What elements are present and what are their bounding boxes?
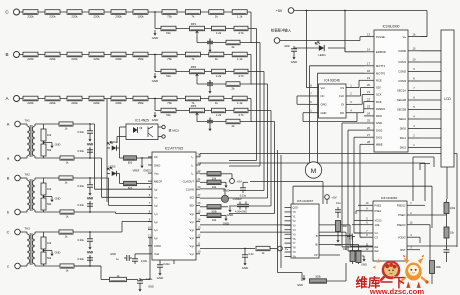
wire TA3 top to rail xyxy=(73,231,122,233)
svg-text:RP2: RP2 xyxy=(191,65,197,69)
watermark text weiku xyxy=(356,275,406,290)
potentiometer RP3 xyxy=(190,104,205,118)
svg-text:V‌cc: V‌cc xyxy=(154,171,159,175)
wire +5V rail xyxy=(294,10,427,88)
capacitor C-LED xyxy=(284,44,297,54)
svg-text:IE2: IE2 xyxy=(375,249,379,253)
svg-text:IC5 CD4067: IC5 CD4067 xyxy=(297,199,314,203)
node c terminal xyxy=(7,263,27,269)
svg-text:220k: 220k xyxy=(71,15,78,19)
svg-text:V₃p: V₃p xyxy=(189,244,194,248)
svg-text:0.33u: 0.33u xyxy=(78,130,85,134)
ground C-cf xyxy=(242,260,248,270)
resistor RA10 1.1k xyxy=(232,96,247,105)
svg-text:DIG0: DIG0 xyxy=(400,127,407,131)
svg-text:TA1: TA1 xyxy=(25,119,31,123)
wire chain end bracket C xyxy=(251,12,252,43)
ground bottom xyxy=(138,286,154,292)
wire tap junction phase B xyxy=(154,54,156,72)
svg-text:DIO1: DIO1 xyxy=(376,135,383,139)
ground TA3 mid xyxy=(43,250,61,257)
svg-text:I₄p: I₄p xyxy=(154,236,158,240)
svg-text:SDI: SDI xyxy=(189,204,194,208)
node B phase input terminal xyxy=(5,52,19,58)
svg-text:1.1k: 1.1k xyxy=(237,15,243,19)
capacitor CA1 xyxy=(207,118,213,132)
svg-text:GND: GND xyxy=(87,251,93,255)
svg-text:IB: IB xyxy=(315,244,318,247)
svg-text:0.33u: 0.33u xyxy=(78,257,85,261)
svg-text:GND: GND xyxy=(376,121,382,125)
svg-text:PSEO3: PSEO3 xyxy=(397,223,406,227)
wire TA1 secondary top xyxy=(35,123,59,125)
resistor RAd 2k xyxy=(226,119,240,128)
svg-text:GND: GND xyxy=(152,36,158,40)
node C phase input terminal xyxy=(5,9,19,15)
svg-text:I₂n: I₂n xyxy=(154,212,158,216)
wire IC4 NC ORG xyxy=(297,96,307,104)
resistor RBa 51k xyxy=(161,69,176,78)
svg-text:220k: 220k xyxy=(27,15,34,19)
wire TA3 bottom to rail xyxy=(74,265,101,267)
svg-text:1.1k: 1.1k xyxy=(237,57,243,61)
ground CTA21 xyxy=(87,190,93,200)
svg-text:1k: 1k xyxy=(215,15,219,19)
svg-text:150k: 150k xyxy=(137,15,144,19)
svg-text:B: B xyxy=(7,177,10,181)
svg-text:GND: GND xyxy=(321,111,327,115)
wire 4N25 input side xyxy=(107,99,126,202)
ground R-26 xyxy=(227,207,233,217)
wire IC6 right xyxy=(416,205,447,249)
resistor R-bottom 100k xyxy=(310,263,347,283)
svg-text:DI: DI xyxy=(341,103,344,107)
svg-text:820: 820 xyxy=(128,186,133,190)
wire TA3 secondary top xyxy=(35,231,59,233)
svg-text:GND: GND xyxy=(361,264,367,267)
svg-text:100k: 100k xyxy=(211,209,217,213)
svg-text:PULSE: PULSE xyxy=(376,35,385,39)
resistor R-right1 100k xyxy=(444,199,456,227)
svg-text:200k: 200k xyxy=(115,57,122,61)
svg-text:220k: 220k xyxy=(93,57,100,61)
svg-text:CS: CS xyxy=(340,86,344,90)
svg-text:4.7k: 4.7k xyxy=(238,74,244,78)
svg-text:VODO: VODO xyxy=(398,235,406,239)
resistor RC1 220k xyxy=(23,10,38,19)
svg-text:ORG: ORG xyxy=(321,103,327,107)
svg-text:10k: 10k xyxy=(47,241,52,245)
node CF output terminal xyxy=(278,246,289,251)
svg-text:1.1k: 1.1k xyxy=(237,101,243,105)
svg-text:I₁p: I₁p xyxy=(154,188,158,192)
svg-text:200k: 200k xyxy=(115,101,122,105)
svg-text:4.30×GND: 4.30×GND xyxy=(235,211,247,214)
svg-text:220k: 220k xyxy=(27,101,34,105)
ground IC5 bottom xyxy=(297,275,305,287)
svg-text:51k: 51k xyxy=(166,113,171,117)
ground R-15 xyxy=(223,215,229,225)
svg-text:B: B xyxy=(5,52,8,57)
resistor RA3 220k xyxy=(67,96,82,105)
ground R-21 xyxy=(223,182,229,192)
svg-text:CLK: CLK xyxy=(339,94,344,98)
svg-text:SEG1A: SEG1A xyxy=(397,89,406,93)
wire TA2 bottom to rail xyxy=(74,211,116,213)
resistor RC10 1.1k xyxy=(232,10,247,19)
svg-text:220k: 220k xyxy=(71,101,78,105)
capacitor CC1 xyxy=(207,39,213,53)
wire tap junction phase C xyxy=(154,11,156,28)
resistor RCb 1.2k xyxy=(212,26,226,35)
resistor R-CF 820 xyxy=(120,156,153,165)
svg-text:0.22: 0.22 xyxy=(248,252,254,256)
wire ERROR to LED1 xyxy=(345,48,364,52)
svg-text:I₁.: I₁. xyxy=(192,155,195,159)
resistor R-cf 1k xyxy=(244,246,277,255)
wire MOTT1 to motor xyxy=(310,66,365,163)
svg-text:10k: 10k xyxy=(212,185,217,189)
svg-text:C: C xyxy=(7,231,10,235)
svg-text:I₂p: I₂p xyxy=(154,204,158,208)
potentiometer RP2 xyxy=(190,65,205,79)
svg-text:GND: GND xyxy=(87,143,93,147)
wire TA2 top to rail xyxy=(73,177,109,179)
svg-text:IC2 ATT7022: IC2 ATT7022 xyxy=(165,147,184,151)
svg-text:100n: 100n xyxy=(284,44,290,48)
wire sub row A xyxy=(197,119,252,122)
resistor R-26 100k to GND xyxy=(200,205,228,214)
resistor RTA32 vertical xyxy=(41,249,52,266)
svg-text:0.22u: 0.22u xyxy=(163,262,170,266)
svg-text:M: M xyxy=(311,168,316,175)
svg-text:I₃.: I₃. xyxy=(191,171,194,175)
svg-text:V₂p: V₂p xyxy=(189,228,194,232)
svg-text:GND: GND xyxy=(242,266,248,270)
resistor R-ic5 100k xyxy=(336,215,348,237)
svg-text:+5V: +5V xyxy=(332,196,337,200)
svg-text:YA: YA xyxy=(293,256,296,259)
resistor RTA11 vertical xyxy=(41,124,52,141)
wire TA1 top to rail xyxy=(73,123,95,125)
svg-text:SDI: SDI xyxy=(376,86,381,90)
op-amp U3 IC3 BL0930 display driver xyxy=(364,25,421,153)
resistor R-q2 10k xyxy=(353,245,362,265)
svg-text:GND: GND xyxy=(154,163,160,167)
resistor RTA34 1k bottom xyxy=(60,264,74,273)
svg-text:0.03u: 0.03u xyxy=(141,260,148,263)
svg-text:LED3: LED3 xyxy=(109,165,116,169)
wire bottom to pin11 xyxy=(140,238,152,280)
wire SPI bus B xyxy=(293,186,432,228)
svg-text:IC3 BL0930: IC3 BL0930 xyxy=(383,25,400,29)
svg-text:GND: GND xyxy=(55,197,61,201)
svg-text:至 MCU: 至 MCU xyxy=(169,129,180,133)
svg-text:150k: 150k xyxy=(137,101,144,105)
svg-text:MOTT1: MOTT1 xyxy=(376,64,386,68)
svg-text:V₁n: V₁n xyxy=(190,220,195,224)
resistor RA7 75k xyxy=(162,96,177,105)
svg-text:10k: 10k xyxy=(47,187,52,191)
svg-text:PSE1: PSE1 xyxy=(375,209,382,213)
resistor RC9 1k xyxy=(209,10,224,19)
wire TA2 secondary bottom xyxy=(35,211,60,213)
svg-text:COM0: COM0 xyxy=(398,49,406,53)
wire voltage sample rails xyxy=(229,29,275,214)
resistor RTA33 1k top xyxy=(59,230,73,239)
svg-text:RCE: RCE xyxy=(376,79,382,83)
resistor RA4 220k xyxy=(89,96,104,105)
svg-text:COM3: COM3 xyxy=(398,79,406,83)
crystal Y1 1.0MHz xyxy=(200,189,242,203)
svg-text:CF: CF xyxy=(154,155,158,159)
svg-text:RDO: RDO xyxy=(376,114,382,118)
op-amp U-opto IC1 4N25 xyxy=(126,119,158,140)
node b terminal xyxy=(7,209,27,215)
capacitor CTA11 0.33u xyxy=(78,123,94,136)
resistor R-21 10k to GND xyxy=(200,180,226,189)
svg-text:VREF: VREF xyxy=(133,169,140,173)
svg-text:SCl: SCl xyxy=(189,196,194,200)
svg-text:DO: DO xyxy=(340,111,344,115)
resistor RC5 200k xyxy=(111,10,126,19)
wire TA3 secondary bottom xyxy=(35,265,60,267)
wire DIO routing xyxy=(342,123,364,251)
svg-text:DIO0: DIO0 xyxy=(376,128,383,132)
resistor RTA13 1k top xyxy=(59,122,73,131)
svg-text:75k: 75k xyxy=(167,15,172,19)
svg-text:IC6 CD4060: IC6 CD4060 xyxy=(381,196,398,200)
svg-text:Vref: Vref xyxy=(154,252,159,256)
svg-text:220k: 220k xyxy=(93,101,100,105)
resistor RA1 220k xyxy=(23,96,38,105)
svg-text:CLKIN: CLKIN xyxy=(186,188,194,192)
node A terminal xyxy=(7,121,27,127)
svg-text:NC: NC xyxy=(321,94,325,98)
wire chain end bracket B xyxy=(251,55,252,85)
resistor RC2 220k xyxy=(45,10,60,19)
resistor RC4 220k xyxy=(89,10,104,19)
wire pulse input to IC3 PULSE xyxy=(280,37,364,41)
resistor RTA21 vertical xyxy=(41,178,52,195)
ground tap A xyxy=(152,112,158,122)
wire tap row A xyxy=(155,110,252,112)
wire tap junction phase A xyxy=(154,98,156,111)
svg-text:c: c xyxy=(7,265,9,269)
svg-text:GND: GND xyxy=(110,252,116,256)
wire phase A divider chain xyxy=(19,98,251,100)
op-amp U4 IC4 93C46 eeprom xyxy=(307,79,358,119)
node A phase input terminal xyxy=(5,96,19,102)
resistor RAb 1.2k xyxy=(212,108,226,117)
svg-text:GND: GND xyxy=(291,60,297,64)
svg-text:RST: RST xyxy=(400,248,406,252)
svg-text:0.33u: 0.33u xyxy=(78,184,85,188)
svg-text:DIG2: DIG2 xyxy=(400,146,407,150)
wire IC3 to LCD xyxy=(421,37,442,148)
svg-text:4.7k: 4.7k xyxy=(238,31,244,35)
svg-text:GND: GND xyxy=(227,213,233,217)
resistor RBb 1.2k xyxy=(212,69,226,78)
svg-text:PSEO2: PSEO2 xyxy=(397,203,406,207)
node B terminal xyxy=(7,175,27,181)
svg-text:I₃n: I₃n xyxy=(154,228,158,232)
watermark dzsc logo xyxy=(373,255,429,288)
svg-text:A: A xyxy=(7,123,10,127)
ground IC5 xyxy=(335,237,341,247)
svg-text:MBIE: MBIE xyxy=(376,143,383,147)
svg-text:COM: COM xyxy=(154,244,161,248)
svg-text:SEG1B: SEG1B xyxy=(397,98,406,102)
svg-text:CLKOUT: CLKOUT xyxy=(183,179,195,183)
resistor RB9 1k xyxy=(209,52,224,61)
wire chain end bracket A xyxy=(251,99,252,122)
svg-text:GND: GND xyxy=(87,197,93,201)
svg-text:220k: 220k xyxy=(49,57,56,61)
svg-text:I₁n: I₁n xyxy=(154,196,158,200)
svg-text:1.2k: 1.2k xyxy=(216,74,222,78)
svg-text:COM1: COM1 xyxy=(398,60,406,64)
resistor R-22 10k to +5V xyxy=(200,172,232,181)
svg-text:7k: 7k xyxy=(191,15,195,19)
ground CTA31 xyxy=(87,244,93,254)
LCD display block xyxy=(441,30,454,167)
resistor RC6 150k xyxy=(133,10,148,19)
ground IC2 bottom xyxy=(157,270,163,280)
svg-text:I₂.: I₂. xyxy=(191,163,194,167)
resistor RB2 220k xyxy=(45,52,60,61)
svg-text:RP3: RP3 xyxy=(191,104,197,108)
svg-text:R2SDO: R2SDO xyxy=(376,107,385,111)
capacitor C-ic5 xyxy=(335,207,341,215)
svg-text:0.1u: 0.1u xyxy=(336,202,341,205)
capacitor CTA21 0.33u xyxy=(78,177,94,190)
svg-text:100k: 100k xyxy=(436,266,442,269)
svg-text:220k: 220k xyxy=(49,101,56,105)
svg-text:MECP: MECP xyxy=(154,179,162,183)
svg-text:51k: 51k xyxy=(166,74,171,78)
svg-text:100k: 100k xyxy=(450,207,456,210)
LED LED2 xyxy=(107,140,120,158)
wire right bottom xyxy=(432,258,447,284)
svg-text:100k: 100k xyxy=(315,275,321,279)
svg-text:1k: 1k xyxy=(215,57,219,61)
wire pin13 long xyxy=(200,232,346,250)
resistor R-q1 10k xyxy=(343,236,355,262)
resistor RB10 1.1k xyxy=(232,52,247,61)
wire phase B divider chain xyxy=(19,54,251,56)
transformer TA1 xyxy=(25,119,36,159)
resistor RB3 220k xyxy=(67,52,82,61)
resistor RTA14 1k bottom xyxy=(60,156,74,165)
resistor RC7 75k xyxy=(162,10,177,19)
svg-text:10k: 10k xyxy=(47,133,52,137)
svg-text:RP1: RP1 xyxy=(191,22,197,26)
svg-text:ERROR: ERROR xyxy=(376,50,386,54)
svg-text:IC4 93C46: IC4 93C46 xyxy=(324,79,339,83)
svg-text:PSE2: PSE2 xyxy=(375,203,382,207)
svg-text:C3: C3 xyxy=(375,235,379,239)
svg-text:+5V: +5V xyxy=(276,9,283,13)
wire pin24 long xyxy=(200,154,457,248)
svg-text:51k: 51k xyxy=(166,31,171,35)
wire IC5 left rails xyxy=(278,150,303,281)
ground TA2 mid xyxy=(43,196,61,203)
capacitor CTA12 0.33u xyxy=(78,143,94,159)
wire IC6 left stubs xyxy=(342,205,362,251)
resistor R-right3 100k xyxy=(430,230,442,280)
svg-text:PSEO: PSEO xyxy=(398,213,405,217)
svg-text:V‌cc: V‌cc xyxy=(321,86,326,90)
svg-text:COM2: COM2 xyxy=(398,70,406,74)
svg-text:10k: 10k xyxy=(212,218,217,222)
ground IC6 bottom left xyxy=(361,256,367,267)
op-amp U2 IC2 ATT7022 energy metering IC xyxy=(148,147,201,261)
LED LED1 xyxy=(296,42,345,58)
svg-text:150k: 150k xyxy=(137,57,144,61)
svg-text:220k: 220k xyxy=(49,15,56,19)
transformer TA3 xyxy=(25,227,36,267)
svg-text:+5V: +5V xyxy=(237,180,242,184)
resistor RTA12 vertical xyxy=(41,141,52,158)
svg-text:Q2O: Q2O xyxy=(293,207,298,210)
svg-text:V₁p: V₁p xyxy=(190,212,195,216)
svg-text:220k: 220k xyxy=(93,15,100,19)
wire tap row B xyxy=(155,71,252,73)
svg-text:SEG2: SEG2 xyxy=(399,117,407,121)
svg-text:75k: 75k xyxy=(167,57,172,61)
svg-text:V₃n: V₃n xyxy=(189,252,194,256)
capacitor C-vref xyxy=(110,252,148,264)
resistor RB5 200k xyxy=(111,52,126,61)
wire phase C divider chain xyxy=(19,11,251,13)
LED LED3 xyxy=(107,165,120,184)
svg-text:SCK: SCK xyxy=(376,93,382,97)
capacitor CTA22 0.33u xyxy=(78,197,94,213)
svg-text:www.dzsc.com: www.dzsc.com xyxy=(369,287,424,295)
svg-text:TA2: TA2 xyxy=(25,173,31,177)
capacitor C-right xyxy=(444,247,450,258)
resistor RCa 51k xyxy=(161,26,176,35)
svg-text:0.33u: 0.33u xyxy=(78,238,85,242)
capacitor C-bot 0.33u xyxy=(137,278,153,286)
svg-text:1VE: 1VE xyxy=(375,223,380,227)
svg-text:V₂n: V₂n xyxy=(189,236,194,240)
op-amp U6 IC6 CD4060 xyxy=(362,196,416,261)
svg-text:1k: 1k xyxy=(215,101,219,105)
svg-text:GND3: GND3 xyxy=(143,169,151,173)
resistor RB7 75k xyxy=(162,52,177,61)
resistor RCc 4.7k xyxy=(234,26,248,35)
capacitor C-22u xyxy=(240,182,248,197)
resistor R-right2 10k xyxy=(444,227,455,248)
resistor RA8 7k xyxy=(185,96,200,105)
wire LCD bottom bus xyxy=(413,157,447,201)
capacitor C-ic5b xyxy=(347,234,355,240)
wire TA1 secondary bottom xyxy=(35,157,60,159)
resistor RTA31 vertical xyxy=(41,232,52,249)
wire current sample rails xyxy=(95,124,153,232)
wire TA1 bottom to rail xyxy=(74,157,102,159)
wire IC4 to IC3 SPI xyxy=(357,80,364,112)
resistor R-MECP 820 xyxy=(120,181,153,190)
wire pin14 long xyxy=(200,225,457,246)
svg-text:IC1 4N25: IC1 4N25 xyxy=(135,119,149,123)
svg-text:4.7k: 4.7k xyxy=(238,113,244,117)
node calibration pulse input xyxy=(271,28,292,44)
resistor RB6 150k xyxy=(133,52,148,61)
ground CTA11 xyxy=(87,136,93,146)
